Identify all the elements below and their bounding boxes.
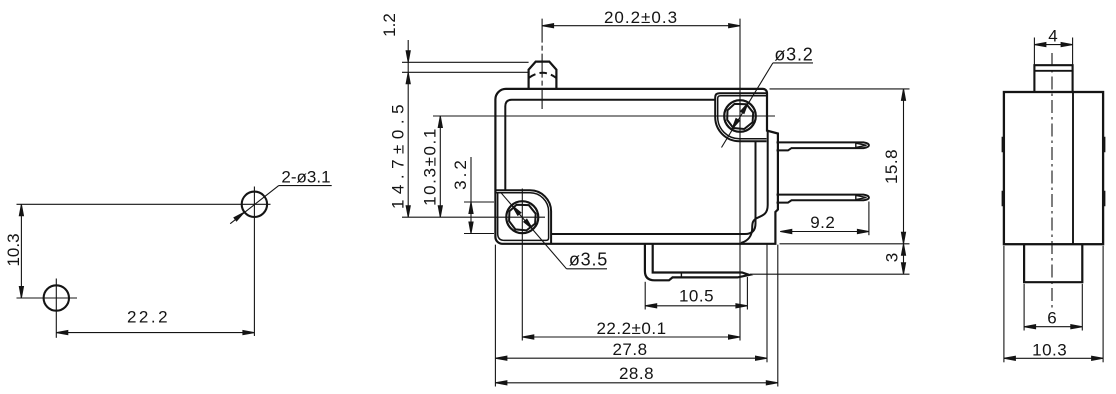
body top extension (right) (770, 88, 910, 90)
svg-text:10.3±0.1: 10.3±0.1 (421, 127, 440, 206)
plunger pressed-position dashed arc (529, 73, 556, 78)
label 2-Ø3.1 (279, 168, 332, 187)
side tab left upper (1002, 138, 1004, 152)
plunger free-position extension (402, 71, 529, 73)
svg-text:15.8: 15.8 (882, 149, 901, 184)
hole C vertical centerline (739, 19, 741, 341)
hole B vertical centerline / dim 22.2 right extension (253, 187, 255, 337)
hole D inner hex (509, 205, 536, 231)
dim 10.5 (645, 277, 747, 310)
svg-text:2-ø3.1: 2-ø3.1 (281, 168, 330, 187)
hole C (top-right) circle (724, 100, 756, 132)
dim 15.8 (882, 89, 906, 244)
side plunger (1034, 65, 1072, 92)
svg-text:28.8: 28.8 (619, 364, 654, 383)
dim 10.3±0.1 (421, 116, 443, 217)
body/post boundary S-curve (741, 132, 768, 244)
hole D horizontal centerline (402, 216, 545, 218)
body left extension (bottom) (494, 245, 496, 387)
svg-text:20.2±0.3: 20.2±0.3 (604, 8, 678, 27)
terminal pin 1 (upper) (777, 142, 869, 150)
plunger top extension (402, 61, 529, 63)
dim 20.2±0.3 (542, 8, 740, 28)
terminal pin 2 (lower) (777, 195, 869, 203)
hole D diameter leader (501, 192, 567, 269)
svg-text:10.3: 10.3 (4, 233, 23, 266)
side centerline (1051, 53, 1053, 308)
body outer outline (495, 89, 778, 244)
svg-text:10.3: 10.3 (1032, 341, 1067, 360)
leader slash through hole B (230, 185, 279, 223)
svg-text:ø3.5: ø3.5 (569, 250, 608, 270)
dim 9.2 (780, 202, 869, 236)
svg-text:4: 4 (1048, 27, 1057, 46)
dim 3 (883, 244, 906, 274)
body inner outline (right-bottom run) (551, 141, 755, 234)
hole D (bottom-left) circle (506, 201, 538, 233)
svg-text:22.2: 22.2 (127, 308, 170, 327)
body bottom extension (right) (780, 243, 910, 245)
dim 3.2 (451, 157, 494, 234)
post right extension (bottom) (777, 245, 779, 387)
dim 10.3 (side view) (1004, 246, 1103, 362)
svg-text:6: 6 (1047, 309, 1056, 328)
side tab left lower (1002, 192, 1004, 206)
dim 6 (1024, 284, 1082, 331)
svg-text:3: 3 (883, 253, 902, 262)
svg-text:14.7±0.5: 14.7±0.5 (389, 99, 408, 209)
hole D vertical centerline (521, 189, 523, 341)
svg-text:9.2: 9.2 (810, 213, 835, 232)
dim 1.2 + 14.7±0.5 shared line (406, 40, 410, 217)
side internal edge (1072, 92, 1074, 244)
label 1.2 (380, 13, 399, 37)
boss bottom-left outer (496, 190, 552, 243)
svg-text:22.2±0.1: 22.2±0.1 (596, 319, 666, 338)
svg-text:27.8: 27.8 (612, 340, 647, 359)
dim 22.2 (left view) (56, 308, 254, 335)
svg-text:ø3.2: ø3.2 (774, 45, 813, 65)
hole A (bottom-left) circle (44, 285, 69, 310)
mounting bracket (bottom) (645, 244, 749, 280)
hole C horizontal centerline (433, 115, 775, 117)
side bottom plug (1024, 244, 1082, 282)
svg-text:3.2: 3.2 (451, 157, 470, 190)
plunger centerline (541, 19, 543, 109)
boss bottom-left inner (496, 193, 549, 241)
dim 27.8 (495, 340, 767, 360)
side body outline (1004, 92, 1103, 244)
svg-text:10.5: 10.5 (679, 287, 714, 306)
label 14.7±0.5 (389, 99, 408, 209)
body inner outline (top-left run) (505, 100, 715, 191)
label Ø3.5 (567, 250, 609, 270)
dim 4 (1034, 27, 1072, 67)
hole C inner hex (727, 104, 753, 129)
boss top-right outer (715, 93, 767, 141)
bracket bottom extension (right) (750, 273, 910, 275)
body right extension (bottom) (766, 244, 768, 362)
dim 10.3 (left view) (4, 204, 24, 298)
side tab right lower (1103, 192, 1105, 206)
hole A horizontal centerline (17, 297, 78, 299)
side tab right upper (1103, 138, 1105, 152)
hole A vertical centerline (55, 279, 57, 338)
boss top-right inner (718, 96, 767, 139)
dim 22.2±0.1 (522, 319, 740, 339)
label Ø3.2 (773, 45, 814, 65)
hole B (top-right) circle (242, 192, 267, 217)
dim 28.8 (495, 364, 777, 385)
plunger (front view) (529, 62, 557, 89)
hole C diameter leader (722, 63, 773, 148)
hole B horizontal centerline / dim 10.3 top extension (17, 203, 271, 205)
svg-text:1.2: 1.2 (380, 13, 399, 37)
